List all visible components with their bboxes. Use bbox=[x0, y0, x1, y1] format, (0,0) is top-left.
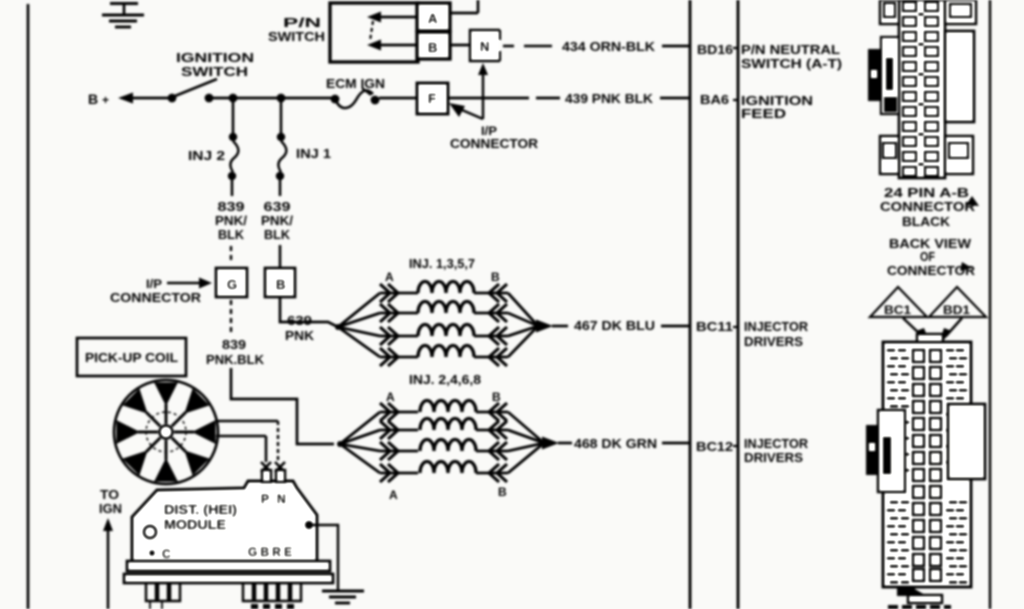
wire: branch 2 right (INJ 2468) bbox=[508, 430, 544, 443]
connector chevrons B branch 4 (INJ 1357) bbox=[474, 348, 508, 366]
node B (group1) bbox=[491, 270, 500, 284]
wire: 839 PNK-BLK feed bbox=[231, 368, 334, 444]
wire: branch 4 right (INJ 1357) bbox=[508, 326, 538, 357]
svg-text:B: B bbox=[491, 270, 500, 284]
pick-up coil reluctor ring bbox=[114, 380, 218, 484]
wire: branch 2 left (INJ 1357) bbox=[338, 313, 380, 327]
connector N (I/P) bbox=[470, 30, 500, 61]
svg-text:BLK: BLK bbox=[264, 227, 291, 242]
connector chevrons B branch 3 (INJ 2468) bbox=[476, 442, 508, 460]
contact A of P/N switch bbox=[417, 3, 450, 31]
label: PICK-UP COIL box bbox=[77, 338, 186, 376]
connector chevrons A branch 3 (INJ 2468) bbox=[380, 442, 418, 460]
svg-text:N: N bbox=[480, 39, 489, 54]
node: converge arrow (INJ 1357) bbox=[536, 320, 568, 333]
node junction INJ2 tap bbox=[229, 94, 238, 103]
connector chevrons B branch 1 (INJ 2468) bbox=[476, 403, 508, 421]
connector chevrons A branch 2 (INJ 1357) bbox=[380, 304, 418, 322]
svg-text:B: B bbox=[428, 40, 437, 55]
label: 639 PNK/BLK bbox=[261, 199, 293, 242]
label: 839 PNK/BLK bbox=[215, 199, 247, 242]
connector side tab (left) bbox=[881, 37, 899, 114]
wire: branch 1 right (INJ 1357) bbox=[508, 293, 538, 326]
wire: 439 PNK BLK to ECM bbox=[565, 91, 689, 106]
injector coil 3 (INJ 2468) bbox=[420, 440, 476, 452]
module pins (right group) bbox=[243, 583, 301, 601]
injector coil 4 (INJ 1357) bbox=[418, 346, 474, 358]
svg-text:B: B bbox=[276, 277, 285, 292]
wire bbox=[279, 245, 282, 267]
wire: pick-up coil lead (top) bbox=[217, 421, 278, 462]
svg-text:468 DK GRN: 468 DK GRN bbox=[574, 436, 657, 451]
pin P of module bbox=[262, 470, 271, 482]
connector chevrons A branch 1 (INJ 1357) bbox=[380, 284, 418, 302]
label: INJECTOR DRIVERS (BC12) bbox=[744, 436, 809, 465]
connector chevrons B branch 1 (INJ 1357) bbox=[474, 284, 508, 302]
label: 839 PNK.BLK bbox=[206, 337, 265, 367]
label: INJECTOR DRIVERS (BC11) bbox=[744, 319, 809, 349]
svg-text:DRIVERS: DRIVERS bbox=[744, 450, 803, 465]
svg-text:A: A bbox=[428, 11, 438, 26]
svg-text:P: P bbox=[261, 492, 269, 506]
wire: right page border bbox=[989, 0, 991, 609]
connector notch (top) bbox=[917, 334, 943, 342]
connector bottom ribs (clipped) bbox=[888, 605, 951, 609]
wire: leader to F bbox=[449, 103, 483, 119]
wire (dashed below G) bbox=[230, 300, 232, 332]
svg-text:C: C bbox=[162, 547, 171, 561]
wire: branch 3 right (INJ 1357) bbox=[508, 326, 538, 336]
svg-text:439 PNK BLK: 439 PNK BLK bbox=[565, 91, 654, 106]
pin numbers (clipped) bbox=[251, 604, 294, 609]
ground bbox=[102, 4, 144, 28]
connector F (I/P) bbox=[417, 83, 448, 114]
svg-text:N: N bbox=[277, 492, 286, 506]
connector wing (top-left) bbox=[880, 0, 899, 24]
wire: branch 1 right (INJ 2468) bbox=[508, 412, 544, 443]
svg-text:BD1: BD1 bbox=[943, 303, 970, 317]
injector coil 4 (INJ 2468) bbox=[420, 462, 476, 474]
connector chevrons B branch 3 (INJ 1357) bbox=[474, 327, 508, 345]
wire: pick-up coil lead (bottom) bbox=[216, 436, 266, 462]
module mounting plate upper bbox=[127, 561, 330, 571]
wire: branch 1 left (INJ 2468) bbox=[340, 412, 380, 444]
injector coil 1 (INJ 2468) bbox=[420, 401, 476, 413]
pins of back-view connector bbox=[913, 350, 941, 581]
injector coil 3 (INJ 1357) bbox=[418, 325, 474, 337]
svg-text:B: B bbox=[492, 390, 501, 404]
svg-text:A: A bbox=[385, 270, 394, 284]
pick-up coil armature star bbox=[138, 404, 194, 460]
node A (group2 top) bbox=[386, 390, 395, 404]
node junction INJ1 tap bbox=[277, 94, 286, 103]
svg-text:BA6: BA6 bbox=[700, 92, 729, 107]
svg-text:PNK/: PNK/ bbox=[215, 213, 247, 228]
wire: BC1 leader bbox=[903, 318, 931, 346]
svg-text:24 PIN A-B: 24 PIN A-B bbox=[884, 185, 969, 200]
connector foot bbox=[897, 588, 942, 603]
svg-text:OF: OF bbox=[920, 249, 935, 264]
svg-text:MODULE: MODULE bbox=[164, 517, 226, 532]
svg-text:SWITCH: SWITCH bbox=[181, 64, 248, 79]
svg-text:TO: TO bbox=[100, 487, 119, 502]
label: I/P CONNECTOR (upper) bbox=[450, 124, 539, 151]
svg-text:639: 639 bbox=[264, 199, 291, 214]
connector chevrons A branch 4 (INJ 2468) bbox=[380, 464, 418, 482]
svg-text:INJECTOR: INJECTOR bbox=[744, 436, 809, 451]
wire: leader to N bbox=[478, 63, 488, 119]
node A (group1) bbox=[385, 270, 394, 284]
connector latch (left, back view) bbox=[866, 425, 878, 475]
svg-text:434 ORN-BLK: 434 ORN-BLK bbox=[562, 39, 656, 54]
label: TO IGN bbox=[99, 487, 122, 516]
connector side tab (left, back view) bbox=[878, 410, 905, 492]
wire stubs below pins bbox=[150, 601, 162, 609]
svg-text:I/P: I/P bbox=[146, 277, 162, 291]
wire: branch 3 right (INJ 2468) bbox=[508, 443, 544, 451]
svg-text:PNK.BLK: PNK.BLK bbox=[206, 352, 265, 367]
ground (module) bbox=[322, 591, 364, 603]
connector chevrons A branch 4 (INJ 1357) bbox=[380, 348, 418, 366]
svg-text:BLACK: BLACK bbox=[902, 214, 951, 229]
connector chevrons A branch 1 (INJ 2468) bbox=[380, 403, 418, 421]
wire bbox=[448, 97, 560, 100]
label: BACK VIEW OF CONNECTOR bbox=[887, 236, 976, 278]
pin BD16 bbox=[697, 42, 738, 57]
injector coil 2 (INJ 2468) bbox=[420, 419, 476, 431]
wire: 434 ORN-BLK to ECM bbox=[503, 39, 689, 54]
node BD1 bbox=[929, 287, 986, 317]
svg-text:B: B bbox=[88, 91, 98, 107]
svg-text:A: A bbox=[389, 488, 398, 502]
connector: 24-pin body (top view) bbox=[899, 0, 945, 178]
connector chevrons B branch 2 (INJ 2468) bbox=[476, 421, 508, 439]
svg-text:SWITCH (A-T): SWITCH (A-T) bbox=[741, 56, 842, 71]
svg-text:INJ. 1,3,5,7: INJ. 1,3,5,7 bbox=[409, 256, 475, 271]
node: fan-out INJ 1357 bbox=[335, 324, 341, 330]
label: IGNITION FEED bbox=[741, 93, 813, 121]
svg-text:INJECTOR: INJECTOR bbox=[744, 319, 809, 334]
svg-text:IGN: IGN bbox=[99, 501, 122, 516]
node A (group2 bottom) bbox=[389, 488, 398, 502]
svg-text:839: 839 bbox=[222, 337, 246, 352]
node B+ bbox=[88, 91, 109, 107]
svg-text:P/N: P/N bbox=[283, 15, 321, 30]
wire: 468 DK GRN to ECM bbox=[574, 436, 689, 451]
pin N of module bbox=[276, 470, 285, 482]
svg-text:467 DK BLU: 467 DK BLU bbox=[574, 318, 655, 333]
label: P/N NEUTRAL SWITCH (A-T) bbox=[741, 42, 842, 71]
switch: P/N switch body bbox=[268, 3, 418, 62]
label: INJ. 2,4,6,8 bbox=[409, 372, 481, 387]
wire bbox=[279, 180, 282, 196]
svg-text:DIST. (HEI): DIST. (HEI) bbox=[164, 502, 237, 517]
pin BC12 bbox=[696, 439, 738, 454]
pin BC11 bbox=[696, 319, 738, 334]
connector wing (bottom-right) bbox=[945, 136, 973, 174]
connector wing (bottom-left) bbox=[880, 136, 899, 174]
svg-text:PNK/: PNK/ bbox=[261, 213, 293, 228]
svg-text:INJ. 2,4,6,8: INJ. 2,4,6,8 bbox=[409, 372, 481, 387]
pin C of module bbox=[149, 547, 171, 561]
wire: branch 1 left (INJ 1357) bbox=[338, 293, 380, 327]
svg-text:F: F bbox=[428, 91, 436, 106]
wire: INJ2 branch bbox=[232, 102, 235, 134]
node: ECM connector column left rail bbox=[689, 0, 692, 609]
connector: ECM IGN in-line splice bbox=[331, 88, 380, 108]
wire: branch 3 left (INJ 2468) bbox=[340, 444, 380, 451]
wire: branch 4 left (INJ 1357) bbox=[338, 327, 380, 357]
svg-text:BC1: BC1 bbox=[884, 303, 911, 317]
connector latch (left) bbox=[868, 49, 881, 101]
wire (dashed into connector G) bbox=[230, 246, 232, 264]
wire: 467 DK BLU to ECM bbox=[574, 318, 689, 333]
node: fan-out INJ 2468 bbox=[337, 441, 343, 447]
wire: TO IGN arrow bbox=[103, 518, 113, 609]
label: INJ. 1,3,5,7 bbox=[409, 256, 475, 271]
module mounting plate lower bbox=[124, 574, 333, 583]
wire bbox=[379, 97, 417, 100]
node: ECM connector column right rail bbox=[737, 0, 740, 609]
injector coil 2 (INJ 1357) bbox=[418, 302, 474, 314]
hole in module bbox=[144, 526, 156, 538]
wire: contact A to top bbox=[450, 0, 478, 13]
svg-text:CONNECTOR: CONNECTOR bbox=[110, 290, 202, 305]
svg-text:A: A bbox=[386, 390, 395, 404]
switch wiper (P/N switch) bbox=[367, 12, 417, 51]
pins of 24-pin connector bbox=[903, 2, 938, 176]
node: converge arrow (INJ 2468) bbox=[542, 437, 572, 450]
svg-text:BLK: BLK bbox=[218, 227, 245, 242]
contact B of P/N switch bbox=[417, 32, 450, 59]
splice X (P lead) bbox=[261, 462, 271, 472]
node B (group2 top) bbox=[492, 390, 501, 404]
wire: branch 2 right (INJ 1357) bbox=[508, 313, 538, 326]
svg-text:P/N NEUTRAL: P/N NEUTRAL bbox=[741, 42, 840, 57]
svg-text:PICK-UP COIL: PICK-UP COIL bbox=[85, 350, 178, 365]
svg-text:PNK: PNK bbox=[285, 328, 315, 343]
pin BA6 bbox=[700, 92, 738, 107]
svg-text:CONNECTOR: CONNECTOR bbox=[450, 136, 539, 151]
connector G (I/P) bbox=[216, 268, 247, 297]
node BC1 bbox=[870, 287, 927, 317]
svg-text:+: + bbox=[102, 93, 109, 107]
wire: ignition feed bus bbox=[211, 97, 333, 100]
svg-text:BC11: BC11 bbox=[696, 319, 733, 334]
label: IGNITION SWITCH bbox=[176, 50, 254, 79]
connector chevrons A branch 2 (INJ 2468) bbox=[380, 421, 418, 439]
svg-text:IGNITION: IGNITION bbox=[176, 50, 254, 65]
svg-text:INJ 1: INJ 1 bbox=[296, 146, 331, 161]
wire: branch 3 left (INJ 1357) bbox=[338, 327, 380, 336]
svg-text:BD16: BD16 bbox=[697, 42, 733, 57]
connector chevrons B branch 2 (INJ 1357) bbox=[474, 304, 508, 322]
wire: branch 4 left (INJ 2468) bbox=[340, 444, 380, 473]
connector side tab (right, back view) bbox=[948, 404, 985, 479]
svg-text:BC12: BC12 bbox=[696, 439, 733, 454]
connector body ribs bbox=[887, 349, 967, 584]
connector B (I/P) bbox=[265, 268, 295, 297]
connector: 24-pin back view body bbox=[883, 342, 971, 587]
wire: contact B to N bbox=[450, 44, 470, 47]
splice X (N lead) bbox=[275, 462, 285, 472]
svg-text:G: G bbox=[227, 277, 237, 292]
module: DIST (HEI) body bbox=[132, 481, 317, 562]
label: 24 PIN A-B CONNECTOR BLACK bbox=[880, 185, 979, 229]
connector chevrons A branch 3 (INJ 1357) bbox=[380, 327, 418, 345]
module pins (left group) bbox=[146, 583, 180, 601]
connector wing (top-right) bbox=[945, 0, 976, 24]
svg-text:FEED: FEED bbox=[741, 106, 786, 121]
connector chevrons B branch 4 (INJ 2468) bbox=[476, 464, 508, 482]
wire bbox=[231, 180, 234, 196]
switch INJ 1 bbox=[276, 133, 331, 180]
wire: INJ1 branch bbox=[280, 102, 283, 134]
wire: branch 4 right (INJ 2468) bbox=[508, 443, 544, 473]
wire: BD1 leader bbox=[938, 318, 962, 346]
injector coil 1 (INJ 1357) bbox=[418, 282, 474, 294]
svg-text:ECM IGN: ECM IGN bbox=[326, 76, 385, 91]
svg-text:DRIVERS: DRIVERS bbox=[744, 334, 803, 349]
wire: B+ arrow bbox=[118, 93, 170, 104]
svg-text:839: 839 bbox=[218, 199, 245, 214]
svg-text:639: 639 bbox=[287, 313, 312, 328]
label: DIST. (HEI) MODULE bbox=[164, 502, 237, 532]
wire: E to ground bbox=[312, 525, 338, 590]
node: module E terminal bbox=[305, 521, 313, 529]
svg-text:B: B bbox=[498, 485, 507, 499]
wire: left page border bbox=[27, 4, 30, 609]
switch INJ 2 bbox=[188, 133, 238, 180]
svg-text:SWITCH: SWITCH bbox=[268, 29, 325, 44]
switch: ignition switch bbox=[168, 79, 217, 102]
node B (group2 bottom) bbox=[498, 485, 507, 499]
label: ECM IGN bbox=[326, 76, 385, 91]
svg-text:G B R E: G B R E bbox=[248, 545, 292, 559]
wire: 639 PNK feed bbox=[280, 298, 338, 343]
wire: branch 2 left (INJ 2468) bbox=[340, 430, 380, 444]
svg-text:INJ 2: INJ 2 bbox=[188, 148, 225, 163]
svg-text:CONNECTOR: CONNECTOR bbox=[880, 199, 976, 214]
label P N bbox=[261, 492, 286, 506]
pins G B R E bbox=[248, 545, 292, 559]
label: I/P CONNECTOR (lower) bbox=[110, 277, 212, 305]
connector side tab (right) bbox=[945, 31, 974, 122]
